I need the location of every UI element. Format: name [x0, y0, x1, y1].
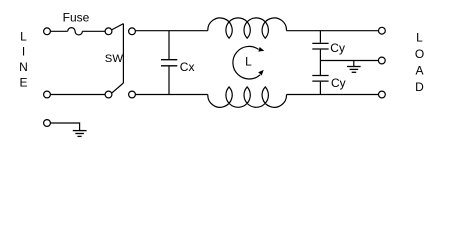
- arrowhead bottom: [258, 70, 264, 76]
- svg-text:Cx: Cx: [180, 60, 195, 74]
- terminal LOAD middle: [378, 57, 385, 64]
- wire fuse to switch: [82, 30, 105, 32]
- svg-text:SW: SW: [105, 53, 124, 65]
- wire bottom rail choke to load: [287, 94, 379, 96]
- wire top rail choke to load: [287, 30, 379, 32]
- inductor L core flux arrow arc: [233, 46, 260, 79]
- inductor L winding bottom: [208, 87, 287, 107]
- capacitor Cx branch bottom wire: [168, 66, 170, 94]
- svg-text:L: L: [20, 29, 27, 43]
- switch SW pole B terminal left: [105, 91, 112, 98]
- wire middle to load: [320, 60, 378, 62]
- wire top rail switch to choke: [135, 30, 207, 32]
- capacitor Cy top branch wire: [319, 31, 321, 43]
- arrowhead top: [258, 47, 264, 52]
- svg-text:Fuse: Fuse: [63, 11, 90, 25]
- terminal LINE bottom: [44, 91, 51, 98]
- wire bottom rail switch to choke: [135, 94, 207, 96]
- svg-text:O: O: [415, 47, 424, 61]
- svg-text:D: D: [415, 80, 424, 94]
- svg-text:Cy: Cy: [330, 41, 345, 55]
- capacitor Cx plates: [161, 60, 177, 66]
- wire earth stem right: [353, 61, 355, 67]
- capacitor Cy bottom plates: [312, 76, 328, 82]
- capacitor Cy top plates: [312, 43, 328, 49]
- earth ground left: [73, 131, 87, 137]
- terminal LOAD top: [379, 27, 386, 34]
- switch SW pole B terminal right: [129, 91, 136, 98]
- switch SW pole A terminal left: [105, 28, 112, 35]
- net label LOAD: [415, 30, 424, 94]
- svg-text:L: L: [245, 55, 252, 69]
- terminal LINE ground: [44, 120, 51, 127]
- wire ground terminal to earth: [50, 123, 79, 130]
- svg-text:N: N: [19, 60, 28, 74]
- capacitor Cx branch top wire: [168, 31, 170, 59]
- wire LINE bottom to switch: [50, 94, 105, 96]
- earth ground right: [347, 67, 361, 73]
- wire Cy midpoint: [319, 50, 321, 75]
- switch SW pole B blade: [112, 83, 124, 93]
- inductor L winding top: [208, 18, 287, 38]
- svg-text:L: L: [416, 30, 423, 44]
- net label LINE: [19, 29, 28, 89]
- svg-text:E: E: [19, 75, 27, 89]
- svg-text:A: A: [415, 64, 423, 78]
- wire LINE top to fuse: [50, 30, 67, 32]
- fuse F1: [68, 28, 83, 35]
- switch SW pole A blade: [112, 24, 124, 30]
- switch SW pole A terminal right: [129, 28, 136, 35]
- capacitor Cy bottom branch wire: [319, 82, 321, 95]
- svg-text:I: I: [22, 45, 25, 59]
- switch SW linkage: [122, 24, 124, 83]
- svg-text:Cy: Cy: [331, 76, 346, 90]
- terminal LOAD bottom: [379, 91, 386, 98]
- terminal LINE top: [44, 28, 51, 35]
